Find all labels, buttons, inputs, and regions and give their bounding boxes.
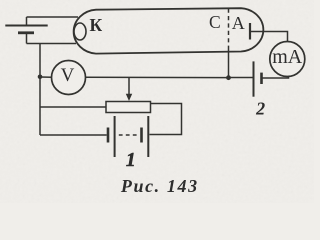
battery 1 long plate right — [147, 116, 149, 157]
wiper arrowhead — [126, 94, 132, 101]
wire battery B bottom vertical — [26, 33, 28, 44]
wire battery B top vertical — [26, 17, 28, 26]
wire pot left — [40, 106, 106, 108]
battery 1 short plate right — [140, 128, 143, 143]
battery B short plate — [18, 31, 34, 34]
wire filament bottom lead — [27, 43, 77, 45]
wire battery 2 to mA — [263, 76, 289, 78]
wire wiper vertical — [128, 77, 130, 97]
tube envelope — [74, 8, 264, 53]
wire filament top lead — [27, 16, 79, 18]
battery 1 dashed omitted cells — [119, 134, 139, 136]
battery 2 short plate — [260, 73, 263, 84]
svg-text:mA: mA — [272, 46, 303, 68]
battery 1 long plate left — [114, 116, 116, 157]
wire battery 1 left — [40, 134, 107, 136]
node junction at voltmeter — [38, 75, 43, 80]
wire grid solid segment — [228, 47, 230, 78]
potentiometer rect — [106, 102, 151, 113]
battery 2 long plate — [253, 61, 255, 96]
svg-text:V: V — [61, 65, 75, 86]
svg-text:А: А — [232, 13, 245, 33]
node junction at grid bus — [226, 75, 231, 80]
anode A plate — [249, 23, 251, 40]
svg-text:1: 1 — [126, 150, 136, 171]
voltmeter V circle — [52, 61, 86, 95]
svg-text:С: С — [209, 12, 221, 32]
wire left vertical bus — [39, 44, 41, 136]
grid C dashed line — [228, 9, 230, 47]
svg-text:К: К — [89, 15, 102, 35]
battery B long plate — [5, 25, 47, 27]
wire pot right loop — [150, 104, 182, 135]
wire grid bus V to junction — [85, 76, 229, 78]
svg-text:2: 2 — [255, 99, 265, 119]
milliammeter mA circle — [270, 42, 305, 77]
wire anode lead — [250, 32, 288, 42]
cathode K ellipse — [74, 23, 86, 40]
wire junction to battery 2 — [229, 77, 253, 79]
wire voltmeter left stub — [40, 76, 52, 78]
battery 1 short plate left — [107, 128, 110, 143]
svg-text:Рис. 143: Рис. 143 — [120, 176, 199, 196]
